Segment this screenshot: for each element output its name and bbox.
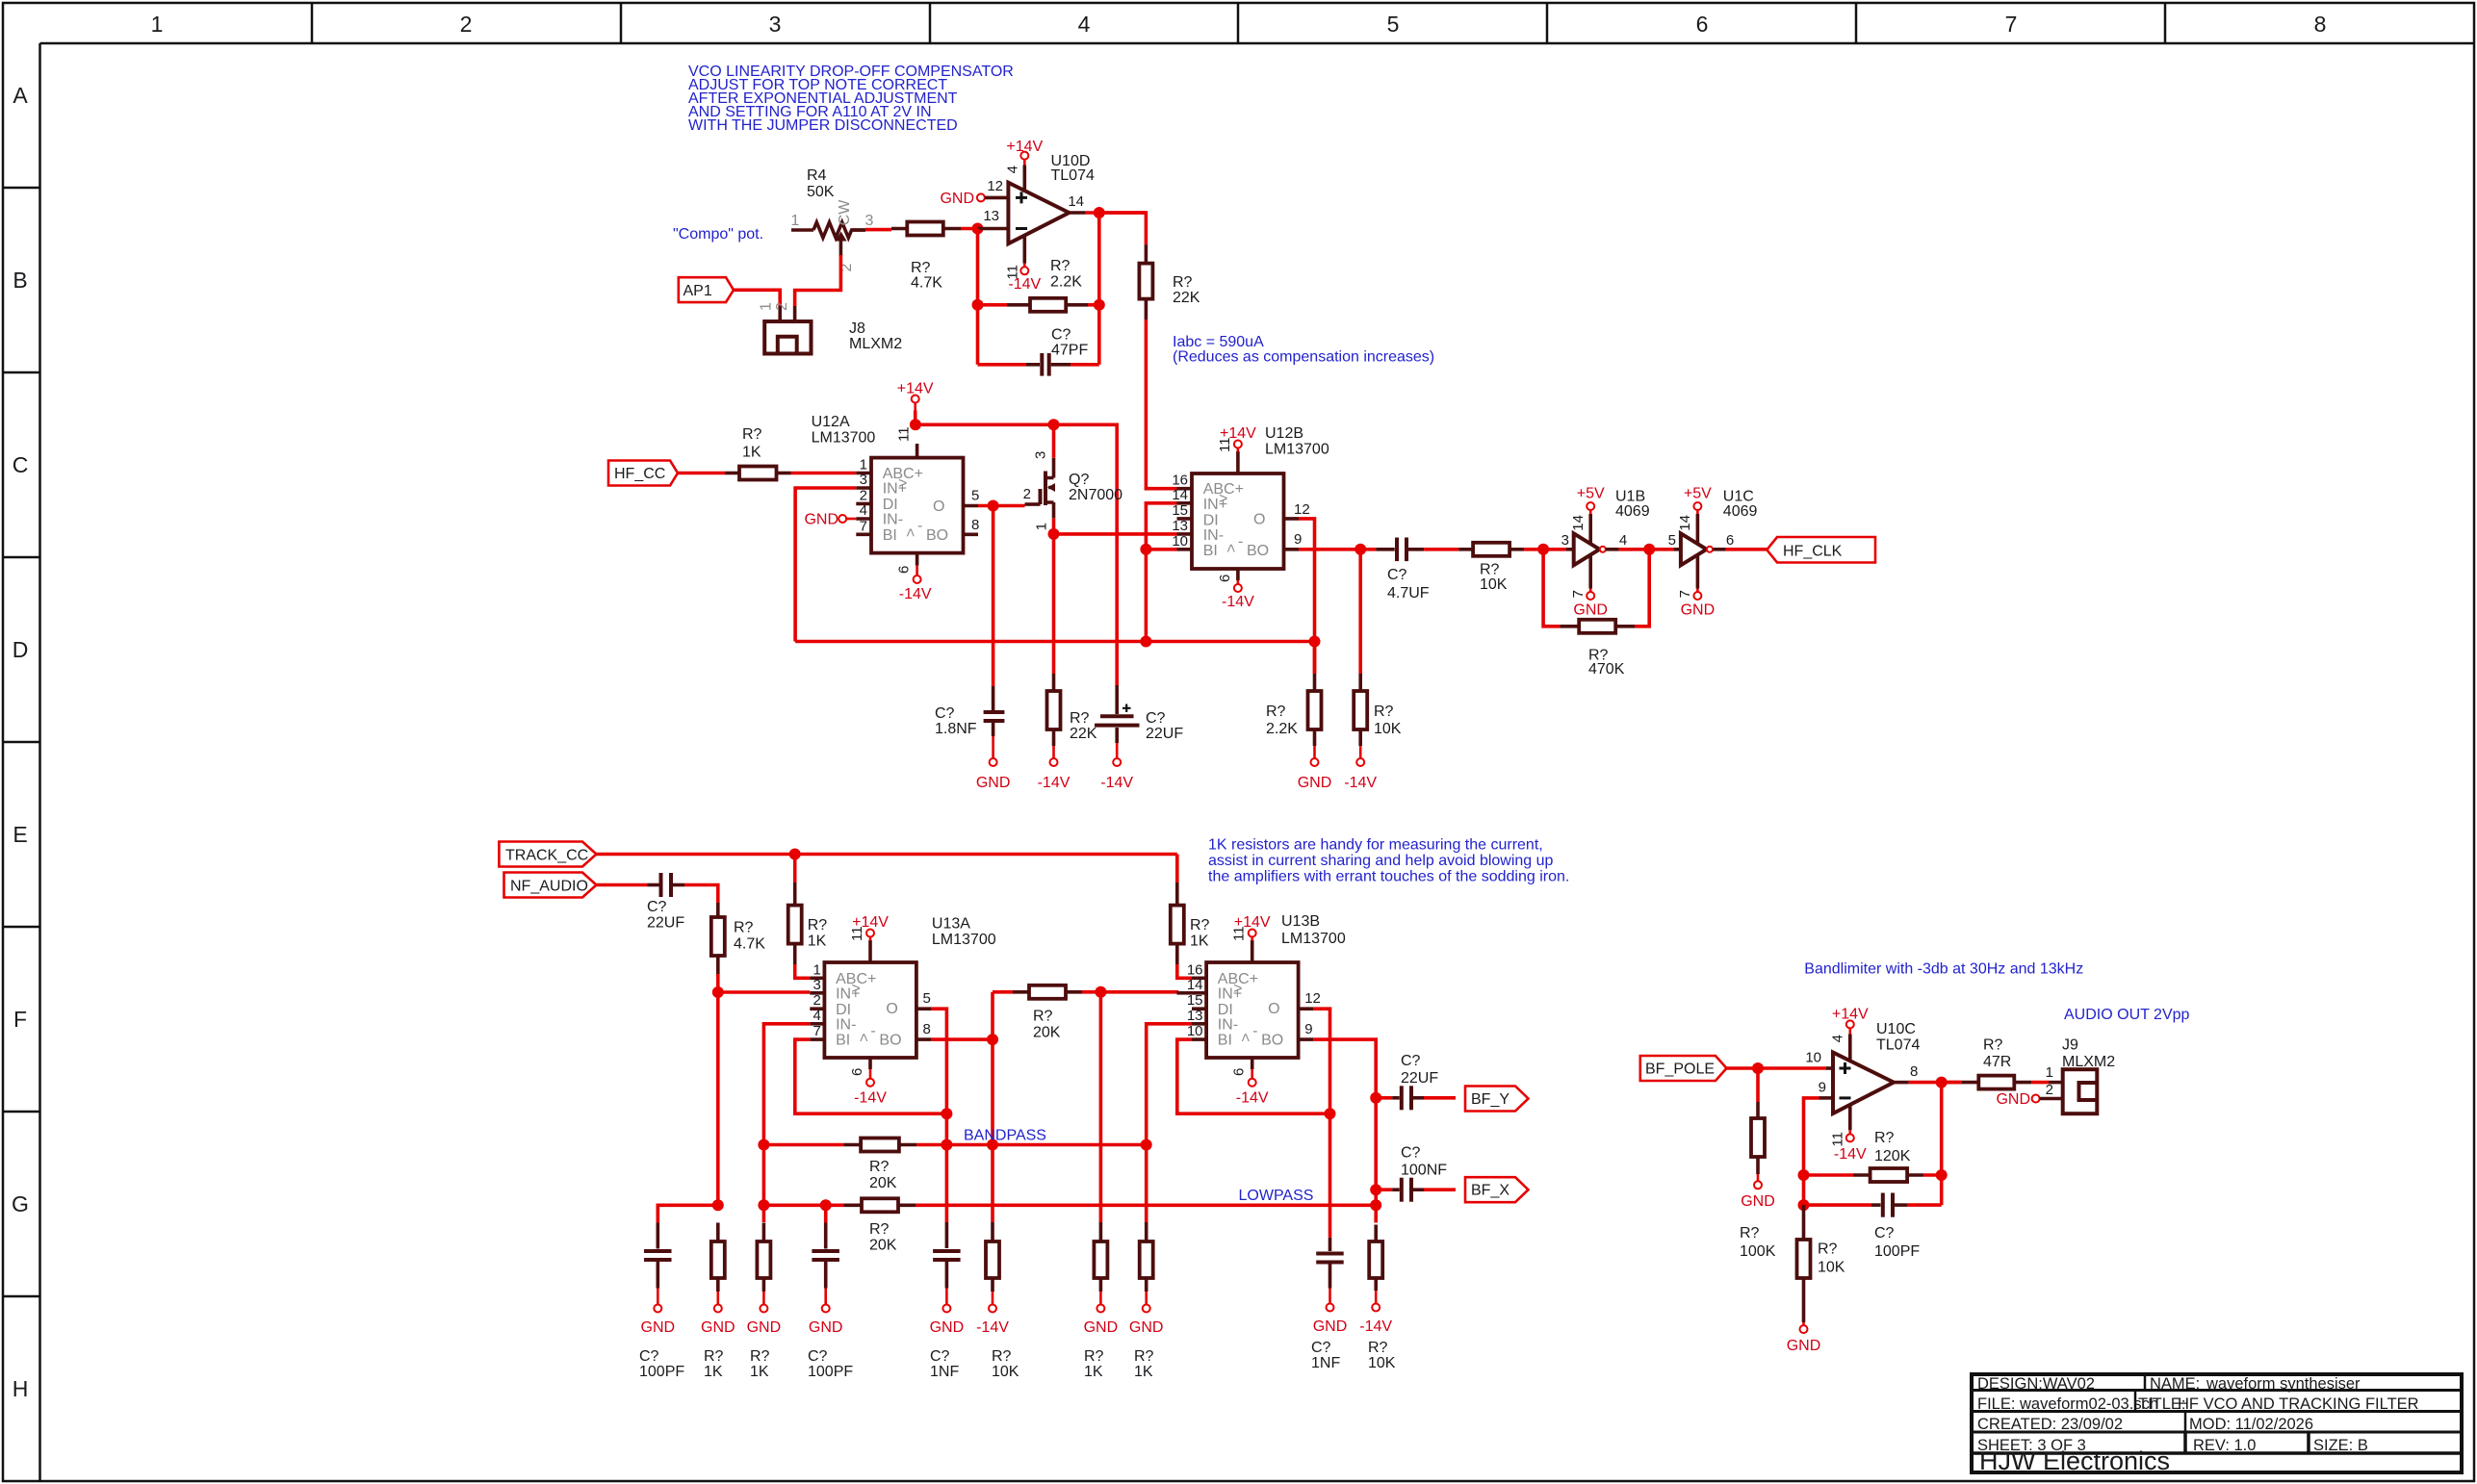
resistor R? 1K bias U13A — [788, 855, 828, 979]
svg-text:-14V: -14V — [1359, 1318, 1392, 1335]
svg-text:1K: 1K — [704, 1364, 723, 1380]
connector J9 MLXM2 — [2046, 1037, 2116, 1114]
wire 20K node down to R1K — [1099, 992, 1103, 1222]
svg-text:3: 3 — [865, 213, 874, 229]
svg-text:Q?: Q? — [1069, 472, 1089, 488]
wire U13A pin8 to 20K node — [931, 1037, 993, 1041]
supply +14V U10C pin4 — [1830, 1007, 1870, 1062]
svg-text:assist in current sharing and: assist in current sharing and help avoid… — [1208, 853, 1554, 869]
svg-text:IN+: IN+ — [1218, 985, 1242, 1002]
OTA U12A LM13700 — [812, 414, 980, 574]
svg-text:the amplifiers with errant tou: the amplifiers with errant touches of th… — [1208, 869, 1569, 885]
svg-text:R?: R? — [1070, 710, 1090, 727]
svg-text:8: 8 — [971, 517, 979, 533]
svg-text:HF_CC: HF_CC — [614, 466, 665, 482]
svg-text:R?: R? — [911, 260, 931, 276]
transistor Q? 2N7000 — [1025, 451, 1123, 531]
svg-text:12: 12 — [987, 178, 1003, 194]
svg-text:100K: 100K — [1740, 1243, 1776, 1260]
svg-text:G: G — [12, 1191, 29, 1216]
bottom row: resistor R? 10K (bandpass load) — [976, 1222, 1019, 1380]
net flag BF_Y — [1465, 1087, 1529, 1112]
net flag BF_POLE — [1640, 1056, 1727, 1081]
svg-text:"Compo" pot.: "Compo" pot. — [673, 226, 763, 243]
svg-text:6: 6 — [1217, 575, 1233, 582]
svg-text:GND: GND — [1681, 602, 1716, 619]
wire U10C output pin8 — [1894, 1081, 1909, 1085]
potentiometer R4 (Compo pot) — [791, 167, 874, 271]
svg-text:14: 14 — [1068, 193, 1084, 210]
capacitor C? 100PF feedback — [1804, 1193, 1942, 1261]
svg-text:J8: J8 — [849, 320, 865, 337]
svg-text:R?: R? — [1134, 1348, 1154, 1365]
svg-text:C: C — [13, 452, 29, 477]
capacitor C? 4.7UF — [1360, 538, 1430, 602]
net flag HF_CC — [608, 461, 678, 486]
svg-text:6: 6 — [849, 1068, 865, 1076]
svg-text:C?: C? — [1401, 1053, 1421, 1069]
bottom row: capacitor C? 1NF (pin12 leg) — [1311, 1238, 1347, 1371]
supply -14V U12A pin6 — [899, 566, 932, 602]
svg-text:6: 6 — [1726, 532, 1734, 549]
svg-text:7: 7 — [1677, 590, 1693, 598]
bottom row: resistor R? 10K (pin9 leg) — [1359, 1225, 1395, 1372]
svg-text:R?: R? — [1983, 1037, 2003, 1054]
svg-text:J9: J9 — [2062, 1037, 2078, 1054]
svg-text:13: 13 — [1172, 518, 1188, 534]
svg-text:10: 10 — [1172, 533, 1188, 550]
svg-text:LOWPASS: LOWPASS — [1239, 1188, 1314, 1204]
wire R10K to U1B input — [1524, 548, 1566, 551]
supply -14V U10C pin11 — [1830, 1105, 1868, 1163]
svg-text:IN+: IN+ — [836, 985, 860, 1002]
svg-text:1K resistors are handy for mea: 1K resistors are handy for measuring the… — [1208, 837, 1543, 854]
wire U13B pin13 IN- leg — [1147, 1024, 1192, 1222]
supply +14V U12A pin11 — [897, 381, 934, 425]
svg-text:DI: DI — [883, 497, 898, 513]
GND flag U10D pin12 — [940, 178, 1008, 207]
svg-text:15: 15 — [1187, 992, 1203, 1009]
supply +14V U13A pin11 — [852, 914, 889, 941]
svg-text:IN-: IN- — [1203, 527, 1224, 544]
svg-text:FILE: waveform02-03.sch: FILE: waveform02-03.sch — [1977, 1395, 2158, 1413]
svg-text:1NF: 1NF — [930, 1364, 959, 1380]
svg-text:GND: GND — [940, 191, 974, 207]
wire U12B pin10 BI stub link — [1146, 548, 1176, 551]
bottom row: resistor R? 1K (IN- leg) — [747, 1223, 782, 1381]
+14V rail to Q drain and 22UF — [910, 419, 921, 430]
svg-text:-14V: -14V — [899, 586, 932, 602]
svg-text:CW: CW — [837, 199, 853, 226]
svg-text:+5V: +5V — [1577, 486, 1605, 502]
svg-text:9: 9 — [1304, 1021, 1312, 1037]
resistor R? 1K — [725, 426, 791, 480]
OTA U12B LM13700 — [1172, 425, 1329, 582]
GND flag J9 pin2 — [1996, 1091, 2062, 1108]
bottom row: resistor R? 1K (IN- U13B leg) — [1129, 1222, 1164, 1380]
svg-text:R?: R? — [1033, 1009, 1053, 1025]
wire cap to R10K — [1424, 548, 1458, 551]
svg-text:BI: BI — [1218, 1033, 1232, 1049]
svg-text:+5V: +5V — [1684, 486, 1712, 502]
net flag NF_AUDIO — [504, 873, 597, 898]
resistor R? 22K pulldown — [1038, 674, 1097, 791]
svg-text:TL074: TL074 — [1876, 1037, 1920, 1054]
svg-text:IN-: IN- — [883, 512, 903, 528]
svg-text:12: 12 — [1294, 501, 1310, 518]
wire U10D output pin14 — [1070, 211, 1086, 215]
svg-text:20K: 20K — [869, 1238, 897, 1254]
svg-text:1K: 1K — [1084, 1364, 1103, 1380]
OTA U13B LM13700 — [1187, 913, 1346, 1076]
svg-text:6: 6 — [1231, 1068, 1248, 1076]
resistor R? 47R output — [1942, 1037, 2049, 1089]
wire U13A pin4 IN- leg — [763, 1024, 810, 1222]
svg-text:O: O — [886, 1001, 897, 1017]
svg-text:50K: 50K — [807, 184, 835, 200]
svg-text:9: 9 — [1294, 531, 1302, 548]
svg-text:10K: 10K — [1818, 1260, 1845, 1276]
svg-text:1K: 1K — [750, 1364, 769, 1380]
svg-text:1: 1 — [151, 12, 164, 37]
svg-text:U10C: U10C — [1876, 1021, 1916, 1037]
svg-text:14: 14 — [1570, 515, 1587, 531]
svg-text:R?: R? — [1050, 258, 1071, 274]
svg-text:GND: GND — [1129, 1319, 1164, 1336]
svg-text:LM13700: LM13700 — [932, 932, 996, 948]
wire U13A pin7 BI loop — [795, 1039, 947, 1113]
svg-text:E: E — [13, 822, 27, 847]
svg-text:U1C: U1C — [1723, 489, 1754, 505]
svg-text:5: 5 — [1387, 12, 1400, 37]
svg-text:1K: 1K — [1134, 1364, 1153, 1380]
svg-text:DI: DI — [836, 1002, 851, 1018]
svg-text:SIZE: B: SIZE: B — [2313, 1437, 2368, 1454]
svg-text:BI: BI — [836, 1033, 850, 1049]
capacitor C? 22UF electrolytic — [1095, 685, 1183, 791]
vertical BO node B — [991, 992, 994, 1222]
svg-text:11: 11 — [896, 426, 913, 442]
svg-text:MOD: 11/02/2026: MOD: 11/02/2026 — [2189, 1416, 2313, 1433]
svg-text:3: 3 — [1033, 451, 1049, 459]
svg-text:-: - — [1238, 533, 1243, 550]
svg-text:R?: R? — [869, 1221, 890, 1238]
svg-text:10: 10 — [1805, 1050, 1821, 1066]
svg-text:9: 9 — [1819, 1080, 1826, 1096]
svg-text:-14V: -14V — [1222, 594, 1254, 610]
resistor R? 1K bias U13B — [1171, 855, 1210, 979]
wire output to R22K — [1099, 213, 1147, 244]
node inverting input — [972, 223, 984, 235]
svg-text:C?: C? — [930, 1348, 950, 1365]
wire input node to U13A pin3 — [718, 990, 811, 994]
bottom row: capacitor C? 1NF (O leg) — [930, 1222, 965, 1380]
resistor R? 10K series — [1458, 543, 1524, 593]
svg-text:R?: R? — [992, 1348, 1012, 1365]
svg-text:(Reduces as compensation incre: (Reduces as compensation increases) — [1173, 349, 1434, 366]
supply +14V U12B pin11 — [1220, 425, 1256, 452]
svg-text:HJW Electronics: HJW Electronics — [1979, 1446, 2170, 1475]
svg-text:HF VCO AND TRACKING FILTER: HF VCO AND TRACKING FILTER — [2178, 1395, 2419, 1413]
connector J8 MLXM2 — [759, 302, 903, 354]
resistor R? 4.7K filter input — [711, 903, 765, 974]
wire U12B pin12 output down — [1299, 519, 1315, 674]
svg-text:GND: GND — [1996, 1091, 2030, 1108]
svg-text:4: 4 — [1619, 532, 1627, 549]
GND U1B pin7 — [1570, 556, 1608, 619]
svg-text:IN+: IN+ — [883, 481, 907, 498]
svg-text:R?: R? — [1266, 704, 1286, 720]
svg-text:BANDPASS: BANDPASS — [964, 1128, 1046, 1144]
svg-text:R?: R? — [704, 1348, 724, 1365]
svg-text:100NF: 100NF — [1401, 1163, 1447, 1179]
svg-text:A: A — [13, 83, 28, 108]
svg-text:3: 3 — [813, 977, 820, 993]
wire U12A pin3 feedback loop — [795, 488, 856, 642]
svg-text:2.2K: 2.2K — [1266, 721, 1298, 737]
svg-text:LM13700: LM13700 — [1281, 931, 1346, 947]
svg-text:GND: GND — [1741, 1193, 1775, 1210]
svg-text:120K: 120K — [1874, 1148, 1911, 1164]
svg-text:8: 8 — [1910, 1063, 1918, 1080]
svg-text:2: 2 — [460, 12, 473, 37]
LOWPASS line — [763, 1204, 843, 1208]
svg-text:U1B: U1B — [1615, 489, 1645, 505]
svg-text:REV: 1.0: REV: 1.0 — [2193, 1437, 2256, 1454]
net flag AP1 — [679, 277, 734, 302]
svg-text:20K: 20K — [1033, 1025, 1061, 1041]
svg-text:1: 1 — [813, 961, 820, 978]
svg-text:GND: GND — [1573, 602, 1608, 619]
svg-text:4.7K: 4.7K — [911, 275, 942, 292]
net flag TRACK_CC — [499, 842, 596, 867]
capacitor C? 100NF — [1376, 1145, 1456, 1202]
svg-text:GND: GND — [976, 775, 1011, 791]
op-amp U10D — [1008, 153, 1095, 243]
svg-text:BI: BI — [1203, 543, 1218, 559]
svg-text:R?: R? — [1084, 1348, 1104, 1365]
svg-text:47R: 47R — [1983, 1054, 2011, 1070]
wire R1K to U12A pin1 — [791, 472, 857, 475]
resistor R? 10K to GND — [1787, 1205, 1845, 1354]
svg-text:BO: BO — [926, 527, 948, 544]
svg-text:-: - — [870, 1023, 875, 1039]
svg-text:4: 4 — [1005, 166, 1021, 173]
wire U13B pin12 output down — [1313, 1009, 1329, 1238]
feedback wire left leg — [976, 229, 980, 365]
wire R4.7K to op-amp pin13 — [961, 227, 978, 231]
svg-text:13: 13 — [1187, 1008, 1203, 1024]
GND flag U12A pin4 — [804, 512, 856, 528]
svg-text:R?: R? — [1190, 917, 1210, 934]
svg-text:1: 1 — [1034, 523, 1050, 530]
svg-text:R?: R? — [734, 920, 754, 936]
feedback wire right leg — [1097, 213, 1101, 365]
svg-text:3: 3 — [860, 472, 867, 488]
svg-text:2N7000: 2N7000 — [1069, 487, 1122, 503]
svg-text:3: 3 — [769, 12, 782, 37]
svg-text:NAME:: NAME: — [2150, 1375, 2200, 1393]
capacitor C? 1.8NF — [935, 506, 1010, 792]
svg-text:WITH THE JUMPER DISCONNECTED: WITH THE JUMPER DISCONNECTED — [688, 117, 958, 134]
svg-text:B: B — [13, 268, 27, 293]
svg-text:13: 13 — [983, 208, 999, 224]
net flag HF_CLK — [1767, 537, 1875, 563]
svg-text:C?: C? — [1387, 567, 1407, 583]
svg-text:5: 5 — [923, 990, 931, 1007]
inverter U1B 4069 — [1561, 489, 1650, 566]
svg-text:5: 5 — [1668, 532, 1676, 549]
BANDPASS line — [763, 1143, 843, 1147]
svg-text:470K: 470K — [1588, 661, 1625, 678]
title block — [1972, 1374, 2462, 1475]
svg-text:1.8NF: 1.8NF — [935, 721, 977, 737]
svg-text:GND: GND — [804, 512, 839, 528]
wire U13B pin9 output leg — [1313, 1039, 1376, 1222]
svg-text:100PF: 100PF — [639, 1364, 684, 1380]
svg-text:7: 7 — [1570, 590, 1587, 598]
svg-text:C?: C? — [1874, 1225, 1895, 1241]
svg-text:GND: GND — [1787, 1338, 1821, 1354]
wire U12B pin14 IN+ — [1146, 503, 1176, 642]
resistor R? 4.7K — [891, 222, 961, 292]
svg-text:12: 12 — [1304, 990, 1321, 1007]
svg-text:AP1: AP1 — [684, 283, 712, 299]
svg-text:IN+: IN+ — [1203, 497, 1227, 513]
svg-text:2: 2 — [774, 302, 790, 311]
wire input 100PF branch — [658, 1205, 718, 1222]
supply -14V U10D pin11 — [1005, 236, 1042, 294]
svg-text:BI: BI — [883, 527, 897, 544]
OTA U13A LM13700 — [810, 916, 995, 1077]
svg-text:R?: R? — [1740, 1225, 1760, 1241]
svg-text:-14V: -14V — [1834, 1146, 1867, 1163]
feedback verticals — [1940, 1083, 1944, 1206]
svg-text:GND: GND — [930, 1319, 965, 1336]
wire U1C out to HF_CLK — [1726, 548, 1767, 551]
svg-text:14: 14 — [1677, 515, 1693, 531]
svg-text:1: 1 — [759, 302, 775, 311]
svg-text:C?: C? — [1311, 1340, 1331, 1356]
svg-text:22UF: 22UF — [1146, 726, 1183, 742]
svg-text:O: O — [1253, 511, 1265, 527]
svg-text:TL074: TL074 — [1051, 167, 1095, 184]
svg-text:H: H — [13, 1376, 29, 1401]
svg-text:22UF: 22UF — [1401, 1070, 1438, 1087]
svg-text:BO: BO — [1247, 543, 1269, 559]
GND U1C pin7 — [1677, 556, 1715, 619]
capacitor C? 47PF feedback — [978, 327, 1099, 376]
svg-text:U12A: U12A — [812, 414, 850, 430]
svg-text:1: 1 — [791, 213, 800, 229]
svg-text:Bandlimiter with -3db at 30Hz: Bandlimiter with -3db at 30Hz and 13kHz — [1804, 961, 2083, 978]
svg-text:-14V: -14V — [1100, 775, 1133, 791]
wire AP1 to J8 pin1 — [734, 290, 780, 306]
svg-text:-14V: -14V — [1236, 1090, 1269, 1107]
svg-text:LM13700: LM13700 — [812, 430, 876, 447]
bottom row: capacitor C? 100PF (input) — [639, 1223, 684, 1381]
svg-text:10K: 10K — [1374, 721, 1402, 737]
wire U13A pin5 output — [931, 1009, 946, 1222]
svg-text:1NF: 1NF — [1311, 1355, 1340, 1371]
capacitor C? 22UF input — [597, 873, 685, 932]
wire U13B pin14 stub — [1177, 991, 1193, 995]
svg-text:2: 2 — [1023, 486, 1031, 502]
svg-text:O: O — [933, 499, 944, 515]
svg-text:Iabc = 590uA: Iabc = 590uA — [1173, 334, 1264, 350]
svg-text:IN-: IN- — [1218, 1016, 1238, 1033]
svg-text:R?: R? — [1818, 1241, 1838, 1258]
svg-text:4: 4 — [1830, 1035, 1846, 1042]
wire R22K down to U12B pin16 — [1146, 320, 1176, 489]
wire U10C pin9 inverting leg — [1804, 1098, 1819, 1175]
capacitor C? 22UF output — [1376, 1053, 1456, 1110]
svg-text:11: 11 — [1830, 1132, 1846, 1147]
svg-text:F: F — [13, 1007, 27, 1032]
resistor R? 120K feedback — [1804, 1130, 1942, 1182]
resistor R? 2.2K output load — [1266, 642, 1331, 792]
wire pot to R 4.7K — [851, 228, 865, 232]
svg-text:3: 3 — [1561, 532, 1569, 549]
svg-text:R4: R4 — [807, 167, 827, 184]
svg-text:MLXM2: MLXM2 — [849, 336, 902, 352]
svg-text:R?: R? — [808, 917, 828, 934]
svg-text:R?: R? — [1368, 1340, 1388, 1356]
svg-text:7: 7 — [2005, 12, 2018, 37]
svg-text:1: 1 — [860, 457, 867, 473]
svg-text:100PF: 100PF — [808, 1364, 853, 1380]
svg-text:waveform synthesiser: waveform synthesiser — [2206, 1375, 2361, 1393]
svg-text:DI: DI — [1218, 1002, 1233, 1018]
svg-text:BO: BO — [879, 1033, 901, 1049]
resistor R? 2.2K feedback — [978, 258, 1099, 312]
svg-text:C?: C? — [808, 1348, 828, 1365]
svg-text:2: 2 — [860, 487, 867, 503]
svg-text:C?: C? — [1051, 327, 1071, 344]
svg-text:GND: GND — [1084, 1319, 1119, 1336]
bottom row: resistor R? 1K (input node) — [701, 1223, 735, 1381]
svg-text:+14V: +14V — [852, 914, 889, 931]
svg-text:MLXM2: MLXM2 — [2062, 1054, 2115, 1070]
wire input node — [716, 974, 720, 1206]
svg-text:8: 8 — [923, 1021, 931, 1037]
resistor R? 10K output load — [1344, 550, 1401, 791]
svg-text:GND: GND — [701, 1319, 735, 1336]
wire Q source to U12B pin13 — [1054, 532, 1177, 536]
svg-text:U12B: U12B — [1265, 425, 1303, 442]
svg-text:22K: 22K — [1173, 290, 1200, 306]
supply -14V U13A pin6 — [854, 1069, 887, 1107]
supply +14V U10D pin4 — [1005, 139, 1044, 192]
svg-text:-14V: -14V — [1008, 276, 1041, 293]
supply +14V U13B pin11 — [1234, 914, 1271, 941]
svg-text:10K: 10K — [1480, 576, 1508, 593]
svg-text:22K: 22K — [1070, 726, 1097, 742]
svg-text:BO: BO — [1261, 1033, 1283, 1049]
resistor R? 22K — [1139, 244, 1200, 320]
svg-text:C?: C? — [647, 899, 667, 915]
svg-text:GND: GND — [641, 1319, 676, 1336]
supply -14V U13B pin6 — [1236, 1069, 1269, 1107]
svg-text:R?: R? — [742, 426, 762, 443]
svg-text:100PF: 100PF — [1874, 1243, 1920, 1260]
svg-text:+14V: +14V — [1234, 914, 1271, 931]
svg-text:R?: R? — [1480, 562, 1500, 578]
op-amp U10C — [1833, 1021, 1920, 1113]
svg-text:4: 4 — [1078, 12, 1091, 37]
svg-text:1K: 1K — [808, 934, 827, 950]
wire U12B pin9 output row — [1299, 548, 1360, 551]
